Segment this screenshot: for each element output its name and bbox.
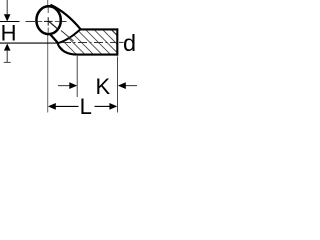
K right arrow (points left) [126,85,138,87]
L left arrow (points left) [48,103,56,110]
socket circle [36,6,60,34]
L right arrow (points right) [109,103,117,110]
pipe axis dash outside pipe [119,41,124,43]
bore edge needle inside circle [49,21,59,30]
svg-text:K: K [95,74,110,99]
svg-text:L: L [80,94,92,119]
miter edge curve [58,29,80,43]
H bottom dimension line [0,42,58,44]
svg-text:d: d [123,30,136,56]
H bottom arrow (up) [4,44,11,51]
pipe bottom edge [77,54,118,56]
circle center cross [44,17,53,25]
pipe axis dash-dot centerline [62,42,116,44]
H arrow end tick [4,61,11,63]
K left extension line [76,56,78,97]
wire: vertical centerline / L left extension line [47,0,49,113]
bend outer curve [58,43,79,55]
circle horizontal centerline dashes (left and right of circle) [26,21,67,23]
pipe right edge [116,28,118,55]
pipe top edge [80,28,118,30]
inner hatch stroke crossing miter [61,31,74,42]
lower collar tangent line [50,34,58,44]
svg-text:H: H [1,20,17,45]
L dimension line right part [95,105,111,107]
H top dimension line [0,21,20,23]
right extension line (K/L/d) [117,57,119,113]
circle centerline ticks [38,7,60,33]
hatching of sectioned body [40,0,177,86]
H top arrow (down) [6,0,8,15]
background [0,0,144,121]
L dimension line left part [55,105,79,107]
K left arrow (points right) [58,85,70,87]
upper collar curve [50,5,80,30]
